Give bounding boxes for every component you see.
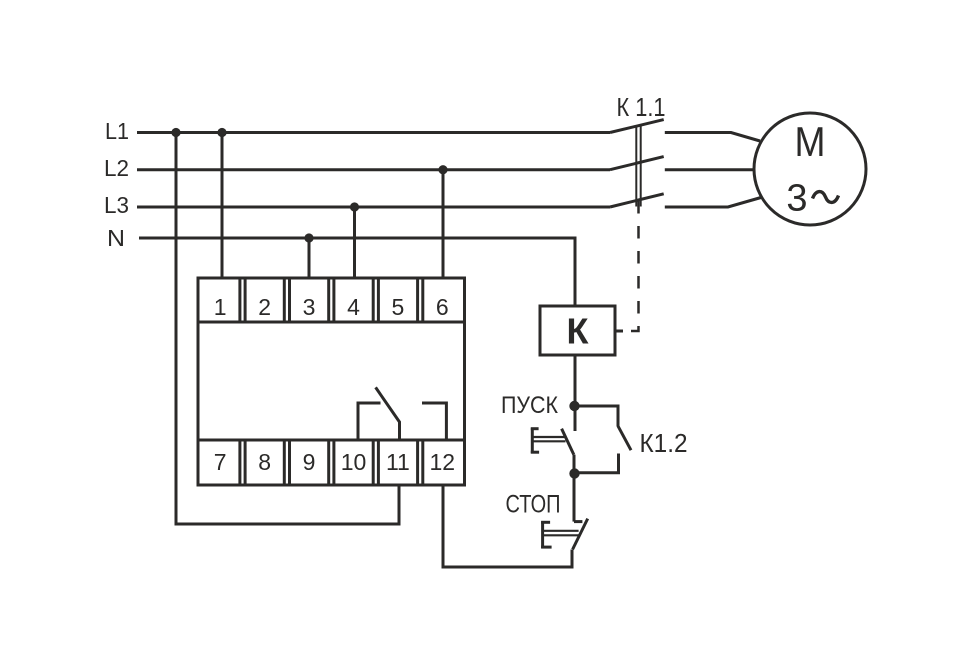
wire terminal 12 to stop button — [443, 485, 572, 567]
wire L1 to loop (down-right-up to terminal 11) — [176, 131, 399, 524]
internal relay contact left bracket — [358, 403, 381, 439]
wire L2 — [137, 168, 610, 171]
start button blade — [562, 429, 574, 455]
motor tilde symbol — [813, 192, 839, 203]
junction L3 — [350, 202, 359, 211]
contactor coil K box — [540, 306, 615, 355]
svg-text:К1.2: К1.2 — [640, 428, 688, 458]
svg-text:6: 6 — [436, 294, 449, 320]
wire L3 to motor — [665, 198, 761, 208]
svg-text:К 1.1: К 1.1 — [617, 92, 666, 122]
svg-text:12: 12 — [430, 449, 456, 475]
svg-text:1: 1 — [214, 294, 227, 320]
node stop junction — [569, 468, 579, 478]
svg-text:10: 10 — [341, 449, 367, 475]
node start junction — [569, 401, 579, 411]
wire L3 to terminal 4 — [353, 207, 356, 278]
wire L1 to motor — [665, 133, 760, 142]
junction L2 — [438, 165, 447, 174]
coil K right stub — [615, 330, 623, 333]
terminal dividers bottom row — [240, 440, 423, 484]
start button plunger — [531, 428, 566, 454]
contact K1.1 blade L3 — [610, 194, 664, 207]
wire L2 to terminal 6 — [442, 170, 445, 278]
svg-text:4: 4 — [347, 294, 360, 320]
svg-text:3: 3 — [786, 178, 807, 220]
svg-text:К: К — [567, 311, 590, 352]
stop button plunger — [541, 521, 579, 548]
svg-text:L1: L1 — [105, 118, 129, 144]
wire L3 — [137, 206, 610, 209]
svg-text:2: 2 — [258, 294, 271, 320]
svg-text:ПУСК: ПУСК — [501, 392, 558, 419]
wire N — [139, 238, 575, 306]
internal relay contact right bracket — [422, 403, 446, 439]
terminal row bottom top line — [198, 439, 465, 442]
svg-text:7: 7 — [214, 449, 227, 475]
wire L2 to motor — [665, 168, 755, 171]
stop button upper wire — [573, 474, 576, 522]
contact K1.2 blade — [618, 426, 631, 450]
svg-text:M: M — [795, 118, 826, 165]
contact K1.1 bar — [636, 125, 640, 207]
svg-text:СТОП: СТОП — [506, 491, 561, 519]
contact K1.2 lower wire — [574, 454, 619, 473]
stop button blade — [573, 519, 588, 550]
contact K1.1 blade L1 — [610, 120, 664, 133]
wire coil K to start node — [574, 355, 577, 431]
relay body outline — [198, 278, 465, 485]
junction L1-B — [217, 128, 226, 137]
svg-text:L3: L3 — [104, 192, 129, 218]
svg-text:N: N — [107, 225, 125, 251]
junction N — [304, 233, 313, 242]
contact K1.1 blade L2 — [610, 157, 664, 170]
dashed link K1.1 to coil — [628, 201, 639, 331]
wire start button to stop node — [573, 455, 576, 474]
terminal dividers top row — [240, 278, 423, 322]
internal relay contact blade — [376, 387, 400, 440]
svg-text:11: 11 — [386, 449, 410, 475]
stop button seat nub — [574, 520, 582, 523]
svg-text:5: 5 — [392, 294, 405, 320]
wire N to terminal 3 — [308, 238, 311, 278]
wire L1 to terminal 1 — [221, 131, 224, 278]
svg-text:8: 8 — [258, 449, 271, 475]
svg-text:9: 9 — [303, 449, 316, 475]
wire L1 — [137, 131, 610, 134]
svg-text:L2: L2 — [104, 155, 129, 181]
motor M1 circle — [754, 113, 866, 225]
contact K1.2 upper wire — [574, 406, 618, 427]
terminal row top bottom line — [198, 321, 465, 324]
junction L1-A — [171, 128, 180, 137]
svg-text:3: 3 — [303, 294, 316, 320]
